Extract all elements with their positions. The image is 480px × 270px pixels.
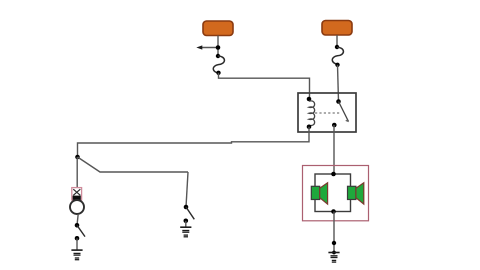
horn button SW1 circle (70, 200, 84, 214)
horn top junction dot (331, 172, 336, 177)
wire fuse F2 down (336, 35, 338, 47)
arrowhead battery feed (196, 45, 202, 49)
relay coil bottom terminal dot (307, 125, 312, 130)
relay actuator dashed link (315, 112, 340, 114)
wire W2 to relay switch contact (338, 65, 339, 102)
wire junction to horn switch branch (78, 157, 189, 172)
connector dot on horn ground wire (332, 241, 336, 245)
relay switch common terminal dot (336, 99, 341, 104)
horn internal wiring loop (315, 174, 351, 212)
junction dot left branch node (75, 155, 80, 160)
node dot bottom of flexible lead W2 (335, 63, 339, 67)
fuse F1 (top-left orange) (203, 21, 233, 36)
switch S1 bottom contact dot (75, 236, 80, 241)
ground GND1 (71, 250, 82, 260)
wire circle to switch S1 (77, 214, 78, 225)
ground GND3 (328, 253, 339, 263)
wire junction down to horn button (76, 157, 78, 188)
horn button SW1 X mark (73, 189, 80, 195)
switch S2 bottom contact dot (184, 219, 189, 224)
relay output terminal dot (332, 123, 337, 128)
switch S2 top contact dot (184, 205, 189, 210)
ground GND2 (180, 227, 191, 237)
wire relay output to horn (333, 125, 335, 174)
node dot top of flexible lead W2 (335, 45, 339, 49)
relay coil top terminal dot (307, 97, 312, 102)
relay coil L1 (309, 101, 315, 126)
relay switch blade (339, 102, 349, 122)
switch S2 blade (open) (186, 207, 194, 219)
node dot bottom of flexible lead W1 (216, 71, 220, 75)
wire fuse F1 to node (217, 36, 219, 57)
fuse F2 (top-right orange) (322, 21, 352, 36)
speaker SP1 magnet (left) (311, 186, 319, 199)
wire horn to ground (333, 212, 335, 253)
node dot top of flexible lead W1 (216, 54, 220, 58)
wire down to switch S2 (186, 172, 188, 207)
speaker SP2 magnet (right) (348, 186, 356, 199)
relay K1 box (298, 93, 356, 132)
speaker SP2 cone (356, 183, 364, 204)
switch S1 blade (open) (77, 225, 85, 236)
wire battery feed arrow (201, 47, 218, 49)
horn bottom junction dot (331, 209, 336, 214)
horn button SW1 black base (73, 196, 81, 200)
switch S1 top contact dot (75, 223, 80, 228)
horn H1 enclosure (red box) (303, 166, 369, 221)
wire S1 to ground (76, 238, 78, 250)
wire W1 to relay coil (219, 73, 310, 99)
flexible wire W2 (s-curl) (332, 47, 343, 64)
wire S2 to ground (185, 221, 187, 227)
speaker SP1 cone (320, 183, 328, 204)
junction dot at fuse F1 tap (216, 45, 221, 50)
flexible wire W1 (s-curl) (213, 56, 224, 73)
ground GND3 junction dot (332, 251, 336, 255)
relay switch blade tip arrow (345, 119, 349, 122)
horn button SW1 outer box (pink) (72, 188, 82, 200)
wire relay coil return (long run to left) (78, 127, 310, 157)
